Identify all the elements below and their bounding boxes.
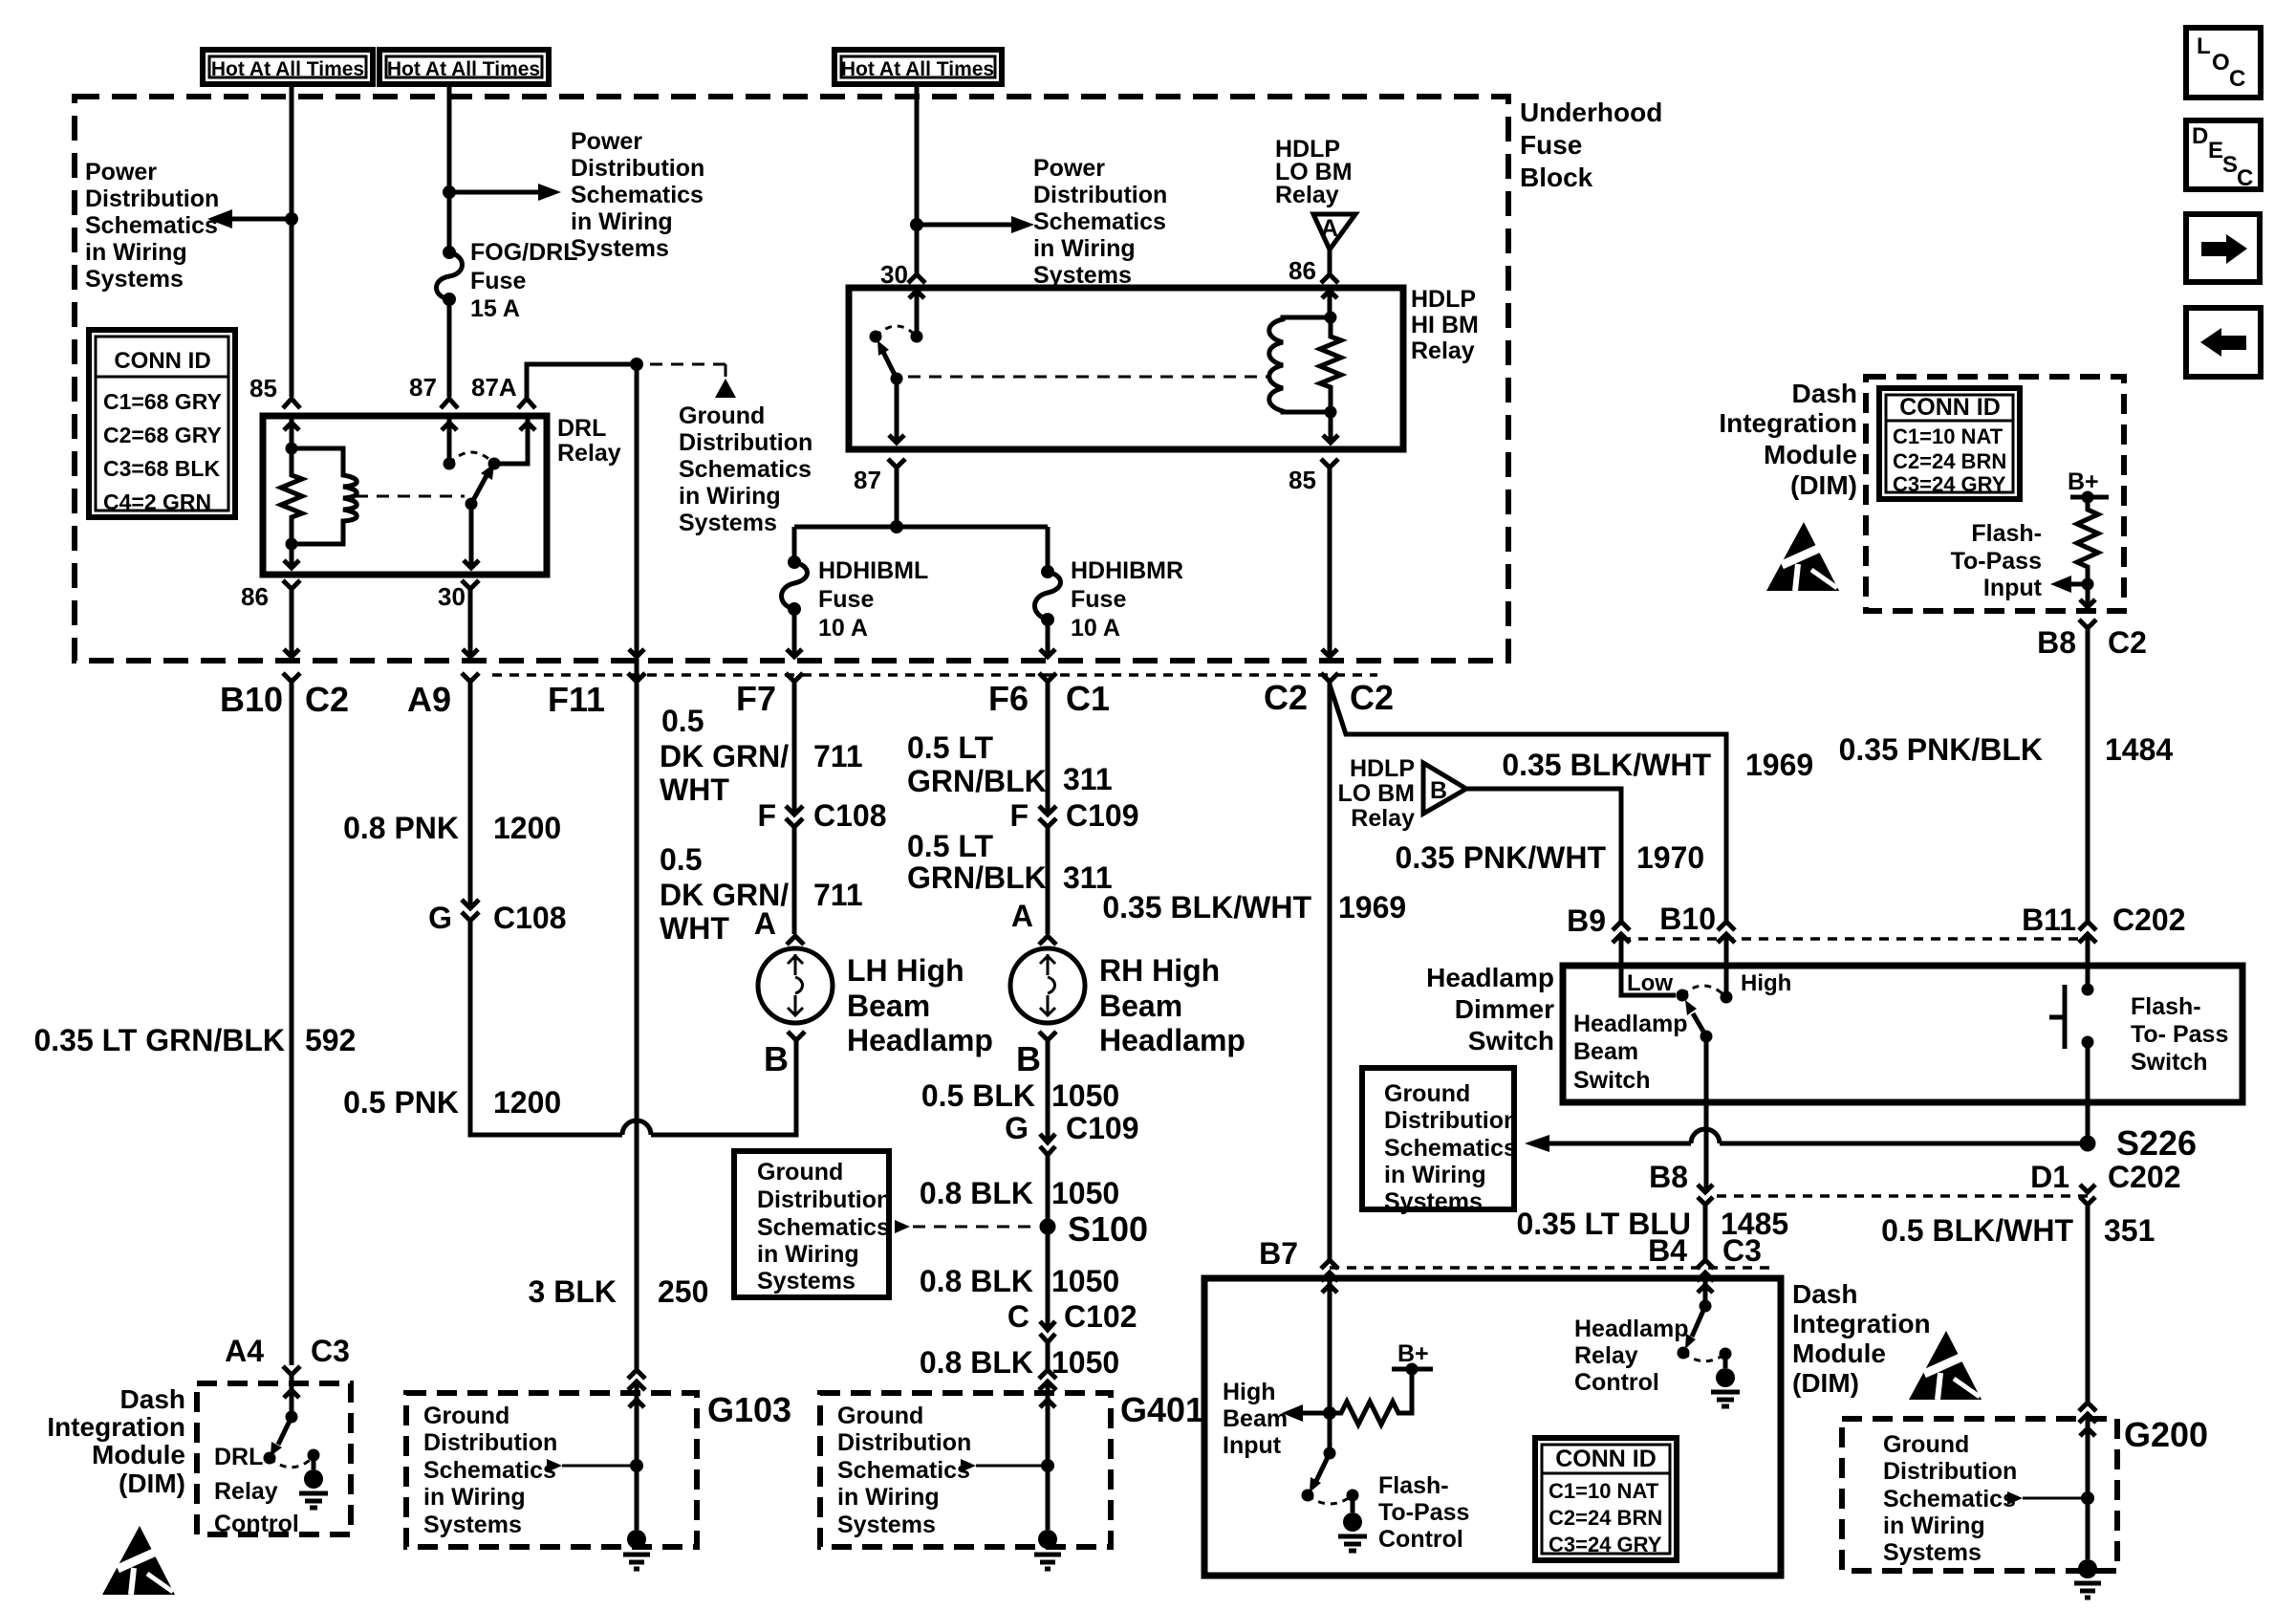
wire: circuit 351 (D1 to G200) (2086, 1205, 2090, 1403)
svg-text:in Wiring: in Wiring (679, 483, 781, 510)
RH headlamp pin A chevron (1039, 936, 1056, 945)
svg-text:1050: 1050 (1051, 1176, 1119, 1210)
svg-text:711: 711 (813, 878, 863, 912)
contact High (dot) (1721, 991, 1733, 1004)
switch: Headlamp Relay Control (1700, 1300, 1712, 1313)
wire: input junction to box edge (2080, 584, 2095, 607)
svg-text:C1: C1 (1066, 679, 1110, 718)
connector F7 chevron (786, 673, 803, 682)
svg-text:(DIM): (DIM) (119, 1469, 185, 1498)
connector C3 dashed line (DIM) (1330, 1266, 1776, 1270)
svg-text:G401: G401 (1120, 1390, 1204, 1429)
svg-text:(DIM): (DIM) (1792, 1368, 1859, 1398)
dashed throw arc flash-to-pass control (1308, 1495, 1353, 1504)
svg-text:0.5 PNK: 0.5 PNK (343, 1085, 459, 1120)
svg-text:1969: 1969 (1745, 748, 1813, 782)
svg-text:C108: C108 (493, 901, 567, 935)
svg-text:351: 351 (2104, 1213, 2155, 1248)
wire: B9 into box to Low contact (1621, 934, 1676, 995)
svg-text:(DIM): (DIM) (1790, 470, 1857, 500)
svg-text:C1=10 NAT: C1=10 NAT (1549, 1479, 1659, 1503)
resistor: HI BM relay internal resistor (1320, 317, 1341, 412)
svg-text:Hot At All Times: Hot At All Times (841, 58, 994, 80)
svg-text:B: B (1016, 1039, 1041, 1078)
pin 30 connector chevron (462, 580, 479, 589)
CONN ID table (Underhood Fuse Block) (89, 330, 235, 517)
wire: DRL pin 86 to fuse block edge (284, 589, 299, 657)
svg-text:Dash: Dash (120, 1384, 185, 1414)
svg-text:F: F (757, 798, 776, 833)
svg-text:Integration: Integration (47, 1412, 185, 1442)
svg-text:C2: C2 (2108, 625, 2147, 660)
svg-text:LH High: LH High (847, 953, 964, 988)
svg-text:87: 87 (409, 373, 437, 402)
svg-text:Systems: Systems (571, 235, 669, 262)
svg-text:C3=24 GRY: C3=24 GRY (1549, 1533, 1662, 1556)
svg-text:in Wiring: in Wiring (423, 1484, 526, 1511)
svg-text:C108: C108 (813, 798, 887, 833)
node: HI BM contact 30 (911, 331, 923, 343)
resistor: DRL relay internal resistor (281, 448, 302, 544)
wire: DRL pin 87A up and over to ground wire (527, 364, 637, 399)
svg-text:3 BLK: 3 BLK (529, 1274, 617, 1309)
svg-text:B: B (764, 1039, 789, 1078)
svg-text:GRN/BLK: GRN/BLK (907, 860, 1047, 895)
svg-text:0.5: 0.5 (661, 704, 704, 738)
svg-text:0.5: 0.5 (660, 842, 702, 877)
connector B8/C2 chevron (2079, 620, 2096, 628)
wire: circuit 1485 (B8 to B4) (1703, 1205, 1708, 1260)
svg-text:311: 311 (1063, 762, 1113, 796)
svg-text:Distribution: Distribution (837, 1429, 971, 1456)
svg-text:592: 592 (305, 1023, 356, 1057)
connector C202 dashed line (lower) (1717, 1194, 2088, 1198)
svg-text:10 A: 10 A (818, 615, 868, 642)
wire: circuit 1969 main (C2 to B7) (1328, 682, 1332, 1260)
wire: circuit 1050 (C102 to G401) (1046, 1342, 1051, 1370)
svg-text:in Wiring: in Wiring (757, 1241, 859, 1268)
svg-text:C202: C202 (2112, 903, 2186, 937)
svg-text:A9: A9 (407, 680, 451, 719)
switch: Headlamp Dimmer Switch box (1563, 966, 2242, 1102)
node: high beam input junction (1323, 1406, 1336, 1420)
wire: S226 to Ground Distribution arrow (with hop over B8 wire) (1539, 1142, 2088, 1146)
svg-text:Systems: Systems (1384, 1188, 1483, 1215)
switch arm: headlamp beam switch armature (1693, 1013, 1706, 1036)
ground symbol (flash-to-pass control) (1338, 1512, 1367, 1551)
svg-text:Schematics: Schematics (837, 1457, 970, 1484)
svg-text:Ground: Ground (679, 402, 765, 429)
pin 87A connector chevron (518, 399, 535, 408)
switch: Flash-To-Pass pushbutton (2049, 984, 2094, 1050)
wire: circuit 711 upper (F7 to C108) (792, 682, 797, 814)
svg-text:Integration: Integration (1719, 408, 1857, 438)
svg-text:Distribution: Distribution (679, 429, 812, 456)
dashed throw arc Low to High (1682, 986, 1726, 997)
LH headlamp pin B chevron (788, 1032, 805, 1040)
connector C2/C2 chevron (1321, 673, 1338, 682)
svg-text:DRL: DRL (214, 1444, 263, 1470)
svg-text:B4: B4 (1648, 1233, 1687, 1268)
svg-text:0.8 BLK: 0.8 BLK (920, 1345, 1033, 1380)
HI BM pin 86 internal arrow (1322, 290, 1337, 317)
ground symbol (DRL relay control) (299, 1469, 328, 1508)
node: junction on pin-85 feed (285, 212, 298, 226)
svg-text:CONN ID: CONN ID (1555, 1446, 1657, 1472)
svg-text:Ground: Ground (1883, 1431, 1969, 1458)
wire: B10 into box to High contact (1724, 934, 1729, 997)
svg-text:Fuse: Fuse (1071, 586, 1126, 613)
svg-text:0.8 BLK: 0.8 BLK (920, 1176, 1033, 1210)
svg-text:G: G (1005, 1111, 1029, 1145)
DRL relay pin 86 internal arrow (284, 544, 299, 568)
svg-text:Relay: Relay (1275, 182, 1339, 208)
svg-text:Dimmer: Dimmer (1455, 994, 1554, 1024)
svg-text:Beam: Beam (1573, 1038, 1638, 1065)
svg-text:A: A (1011, 899, 1033, 933)
svg-text:FOG/DRL: FOG/DRL (470, 239, 578, 266)
high beam input arrow (1282, 1404, 1303, 1422)
svg-text:F11: F11 (548, 680, 605, 719)
B+ terminal (flash-to-pass input) (2070, 495, 2109, 500)
arrow from G200 text to ground wire (2007, 1491, 2023, 1505)
RH headlamp pin B chevron (1039, 1032, 1056, 1040)
svg-text:High: High (1223, 1379, 1276, 1405)
relay HDLP HI BM Relay box (849, 288, 1403, 449)
svg-text:Systems: Systems (1883, 1539, 1982, 1566)
svg-text:in Wiring: in Wiring (1883, 1512, 1985, 1539)
svg-text:C2: C2 (1350, 678, 1394, 717)
svg-text:C: C (1007, 1299, 1029, 1334)
svg-text:Input: Input (1983, 575, 2043, 601)
svg-text:B7: B7 (1259, 1236, 1298, 1271)
arrow from G103 text to ground wire (547, 1459, 562, 1472)
svg-text:Flash-: Flash- (1971, 520, 2042, 547)
node: HI BM coil top (1325, 312, 1337, 324)
connector B9 chevrons (1613, 922, 1630, 943)
node: flash-to-pass input junction (2082, 578, 2094, 591)
svg-text:A4: A4 (225, 1334, 264, 1368)
svg-text:0.35 LT GRN/BLK: 0.35 LT GRN/BLK (33, 1023, 285, 1057)
svg-text:Underhood: Underhood (1520, 98, 1662, 127)
svg-text:To- Pass: To- Pass (2131, 1021, 2228, 1048)
fuse HDHIBMR 10 A (1035, 565, 1061, 626)
svg-text:High: High (1741, 970, 1791, 996)
node: DRL coil bottom (286, 538, 298, 551)
svg-text:C109: C109 (1066, 798, 1139, 833)
svg-text:0.35 BLK/WHT: 0.35 BLK/WHT (1502, 748, 1711, 782)
svg-text:To-Pass: To-Pass (1378, 1499, 1469, 1526)
connector chevrons into G200 (2079, 1403, 2096, 1423)
svg-text:0.5 LT: 0.5 LT (907, 730, 994, 765)
connector F/C109 inline (1039, 806, 1056, 827)
connector chevrons into G103 (628, 1370, 645, 1390)
svg-text:WHT: WHT (660, 911, 729, 946)
wire: HDHIBML fuse to block edge (787, 609, 802, 657)
svg-text:HDLP: HDLP (1411, 286, 1476, 313)
svg-text:Dash: Dash (1792, 1279, 1857, 1309)
svg-text:S: S (2222, 152, 2238, 178)
node: fuse feed junction (890, 520, 903, 533)
connector D1 chevrons (2080, 1185, 2095, 1205)
svg-text:C3: C3 (1722, 1233, 1762, 1268)
svg-text:A: A (754, 906, 776, 941)
svg-text:15 A: 15 A (470, 295, 520, 322)
HI BM contact 87A (dot) (870, 331, 882, 343)
svg-text:Control: Control (214, 1511, 299, 1537)
svg-text:C2=24 BRN: C2=24 BRN (1893, 449, 2006, 473)
wire: circuit 1484 (B8 to B11) (2086, 628, 2090, 922)
node: G103 junction (630, 1459, 643, 1472)
svg-text:in Wiring: in Wiring (1033, 235, 1136, 262)
connector F6 chevron (1039, 673, 1056, 682)
svg-text:S100: S100 (1068, 1209, 1148, 1249)
svg-text:WHT: WHT (660, 772, 729, 807)
connector C1 dashed line under fuse block (492, 673, 1377, 677)
svg-text:Switch: Switch (2131, 1049, 2208, 1076)
ground G200 dashed box (1842, 1419, 2117, 1571)
svg-text:Module: Module (1764, 440, 1857, 469)
arrow to Ground Distribution Schematics (715, 379, 736, 398)
dashed throw arc 87 to 87A (449, 452, 494, 464)
svg-text:B11: B11 (2022, 903, 2076, 937)
svg-text:30: 30 (438, 582, 466, 611)
svg-text:Systems: Systems (757, 1268, 856, 1295)
node: G200 junction (2081, 1491, 2094, 1505)
svg-text:Module: Module (92, 1440, 185, 1469)
triangle reference B (HDLP LO BM Relay) (1423, 763, 1466, 814)
svg-text:Schematics: Schematics (1384, 1135, 1517, 1162)
svg-text:1969: 1969 (1338, 890, 1406, 925)
svg-text:0.35 BLK/WHT: 0.35 BLK/WHT (1102, 890, 1311, 925)
svg-text:G103: G103 (707, 1390, 791, 1429)
svg-text:Distribution: Distribution (757, 1186, 891, 1213)
svg-text:Switch: Switch (1573, 1067, 1651, 1094)
svg-text:Power: Power (1033, 155, 1105, 182)
svg-text:A: A (1321, 215, 1338, 242)
svg-text:86: 86 (1289, 256, 1316, 285)
wire: Hot At All Times 3 feed to HDLP HI BM relay pin 30 (915, 84, 920, 274)
svg-text:HDLP: HDLP (1350, 755, 1415, 782)
svg-text:Headlamp: Headlamp (1426, 963, 1554, 992)
connector B7 chevrons (1321, 1260, 1338, 1281)
svg-text:Headlamp: Headlamp (1574, 1316, 1688, 1342)
pin 87 connector chevron (441, 399, 458, 408)
wire: circuit 1200 upper (A9 to C108) (468, 682, 473, 907)
svg-text:Fuse: Fuse (1520, 130, 1582, 160)
connector G/C109 inline (1040, 1134, 1055, 1155)
wire: fuse feed rail (794, 525, 1048, 530)
connector B11 chevrons (2079, 922, 2096, 943)
svg-text:C102: C102 (1064, 1299, 1137, 1334)
svg-text:1200: 1200 (493, 811, 561, 845)
wire into G401 with arrow (1040, 1382, 1055, 1466)
svg-text:Ground: Ground (837, 1403, 923, 1429)
wire: circuit 592 (B10/C2 to DIM A4/C3) (290, 682, 294, 1365)
wire: branch to Power Distribution (left arrow) (232, 217, 292, 222)
switch: Flash-To-Pass Control (1328, 1413, 1332, 1453)
pin 85 chevron below box (1321, 459, 1338, 468)
node: splice S226 (2080, 1136, 2096, 1152)
svg-text:HDHIBMR: HDHIBMR (1071, 557, 1183, 584)
svg-text:C1=10 NAT: C1=10 NAT (1893, 424, 2004, 448)
wire: 87A contact to pin 87A (494, 418, 535, 464)
node: splice S100 (1040, 1219, 1056, 1235)
svg-text:0.5 LT: 0.5 LT (907, 829, 994, 863)
svg-text:0.5 BLK/WHT: 0.5 BLK/WHT (1881, 1213, 2073, 1248)
svg-text:Hot At All Times: Hot At All Times (211, 58, 364, 80)
wire: HDHIBMR fuse to block edge (1040, 620, 1055, 657)
svg-text:in Wiring: in Wiring (837, 1484, 940, 1511)
svg-text:Schematics: Schematics (571, 182, 704, 208)
svg-text:0.8 BLK: 0.8 BLK (920, 1264, 1033, 1298)
svg-text:Low: Low (1627, 970, 1673, 996)
svg-text:Schematics: Schematics (423, 1457, 556, 1484)
svg-text:Distribution: Distribution (1033, 182, 1167, 208)
ESD symbol (top DIM) (1766, 522, 1839, 591)
svg-text:250: 250 (658, 1274, 708, 1309)
wire: HI BM pin 85 to block edge (1322, 468, 1337, 657)
pin 85 connector chevron (283, 399, 300, 408)
arrow from G401 text to ground wire (961, 1459, 976, 1472)
ESD symbol (left DIM) (102, 1526, 175, 1595)
svg-text:in Wiring: in Wiring (1384, 1162, 1486, 1188)
connector B8 chevrons (1698, 1185, 1713, 1205)
svg-text:Schematics: Schematics (1033, 208, 1166, 235)
svg-text:B+: B+ (2068, 468, 2099, 495)
wire: circuit 1050 (S100 to C102) (1046, 1227, 1051, 1329)
svg-text:LO BM: LO BM (1337, 780, 1415, 807)
connector C/C102 inline (1040, 1321, 1055, 1342)
wire: branch to Power Distribution (right arrow) (449, 190, 538, 195)
svg-text:L: L (2197, 33, 2211, 59)
svg-text:711: 711 (813, 739, 863, 773)
ground G103 dashed box (406, 1393, 697, 1547)
dashed continuation to Ground Distribution (650, 364, 726, 377)
CONN ID table (DIM top) (1879, 388, 2020, 499)
svg-text:Ground: Ground (423, 1403, 509, 1429)
wire: pin 87 to fuse tee (895, 468, 899, 527)
svg-text:Distribution: Distribution (1883, 1458, 2017, 1485)
svg-text:Distribution: Distribution (1384, 1107, 1518, 1134)
svg-text:Fuse: Fuse (470, 268, 526, 294)
ground symbol G401 (1034, 1530, 1061, 1569)
wire: circuit 711 lower (C108 to LH headlamp A) (792, 827, 797, 934)
svg-text:C: C (2237, 165, 2253, 191)
svg-text:1200: 1200 (493, 1085, 561, 1120)
wire: circuit 250 ground wire (junction to G103) (635, 364, 639, 1370)
connector F/C108 inline (786, 806, 803, 827)
svg-text:B8: B8 (1649, 1160, 1688, 1194)
svg-text:0.8 PNK: 0.8 PNK (343, 811, 459, 845)
node: HI BM coil bottom (1325, 406, 1337, 419)
relay DRL Relay box (263, 416, 547, 575)
svg-text:1050: 1050 (1051, 1078, 1119, 1113)
svg-text:1050: 1050 (1051, 1345, 1119, 1380)
svg-text:C2=68 GRY: C2=68 GRY (103, 423, 222, 447)
Underhood Fuse Block dashed outline (75, 97, 1508, 661)
wire: circuit 1969 branch (C2 to B10) (1330, 685, 1726, 922)
svg-text:Integration: Integration (1792, 1309, 1931, 1338)
HI BM pin 30 internal arrow (909, 290, 924, 337)
svg-text:C3=24 GRY: C3=24 GRY (1893, 472, 2006, 496)
arrowhead at fuse block edge on F11 wire (629, 649, 644, 657)
svg-text:E: E (2208, 138, 2223, 163)
svg-text:87A: 87A (471, 373, 517, 402)
svg-text:Schematics: Schematics (757, 1214, 890, 1241)
ground symbol G103 (623, 1530, 650, 1569)
wire: A4 into DIM with arrow (284, 1383, 299, 1417)
connector B4/C3 chevrons (1697, 1260, 1714, 1281)
svg-text:Schematics: Schematics (85, 212, 218, 239)
svg-text:Schematics: Schematics (679, 456, 812, 483)
ground symbol (headlamp relay control) (1711, 1368, 1740, 1406)
svg-text:10 A: 10 A (1071, 615, 1120, 642)
svg-text:C2: C2 (305, 680, 349, 719)
grounded contact (flash-to-pass control) (1347, 1490, 1359, 1502)
svg-text:Distribution: Distribution (85, 185, 219, 212)
left-arrow legend box (2186, 308, 2261, 377)
DRL relay pin 85 internal arrow (284, 418, 299, 448)
svg-text:86: 86 (241, 582, 269, 611)
pin 86 chevron (1321, 274, 1338, 283)
svg-text:B9: B9 (1567, 903, 1606, 938)
dashed throw arc DRL relay control (270, 1457, 314, 1468)
resistor: DIM pull-up to B+ (1330, 1369, 1412, 1425)
svg-text:C109: C109 (1066, 1111, 1139, 1145)
node: junction 87A/ground wire (630, 358, 643, 371)
wire: triangle A to pin 86 (1328, 250, 1332, 274)
connector B10/C2 chevron (283, 673, 300, 682)
node: junction on pin-30 feed (910, 218, 923, 231)
wire to G103 ground (635, 1466, 639, 1530)
svg-text:Dash: Dash (1792, 379, 1857, 408)
svg-text:C4=2 GRN: C4=2 GRN (103, 490, 211, 514)
svg-text:B10: B10 (1659, 902, 1716, 936)
svg-text:Power: Power (85, 159, 157, 185)
wire into G103 with arrow (629, 1382, 644, 1466)
wire: armature to B8 (1704, 1036, 1709, 1188)
svg-text:Power: Power (571, 128, 642, 155)
svg-text:Input: Input (1223, 1432, 1282, 1459)
dashed throw arc headlamp relay control (1683, 1353, 1725, 1361)
svg-text:CONN ID: CONN ID (1899, 394, 2001, 421)
switch arm: DRL relay armature (471, 470, 489, 504)
svg-text:Distribution: Distribution (571, 155, 704, 182)
svg-text:1050: 1050 (1051, 1264, 1119, 1298)
svg-text:in Wiring: in Wiring (85, 239, 187, 266)
module: DIM (DRL Relay Control) dashed box (197, 1383, 351, 1534)
svg-text:Relay: Relay (1351, 805, 1415, 832)
svg-text:1970: 1970 (1636, 840, 1704, 875)
Hot At All Times box 3 (834, 50, 1002, 84)
fuse FOG/DRL 15 A (437, 246, 463, 306)
node: junction on fuse feed (443, 185, 456, 199)
svg-text:C2: C2 (1264, 678, 1308, 717)
wire: B11 into box to flash-to-pass contact (2086, 934, 2090, 990)
node: DRL coil top (286, 443, 298, 455)
connector B10 chevrons (1718, 922, 1735, 943)
svg-text:Beam: Beam (847, 989, 930, 1023)
dashed actuation line coil to armature (356, 495, 465, 498)
svg-text:Ground: Ground (757, 1159, 843, 1186)
svg-text:F6: F6 (988, 679, 1029, 718)
svg-text:Relay: Relay (1574, 1342, 1638, 1369)
fuse HDHIBML 10 A (782, 555, 808, 616)
svg-text:Headlamp: Headlamp (1099, 1023, 1245, 1057)
svg-text:Distribution: Distribution (423, 1429, 557, 1456)
wire: armature to pin 87 (889, 379, 904, 443)
